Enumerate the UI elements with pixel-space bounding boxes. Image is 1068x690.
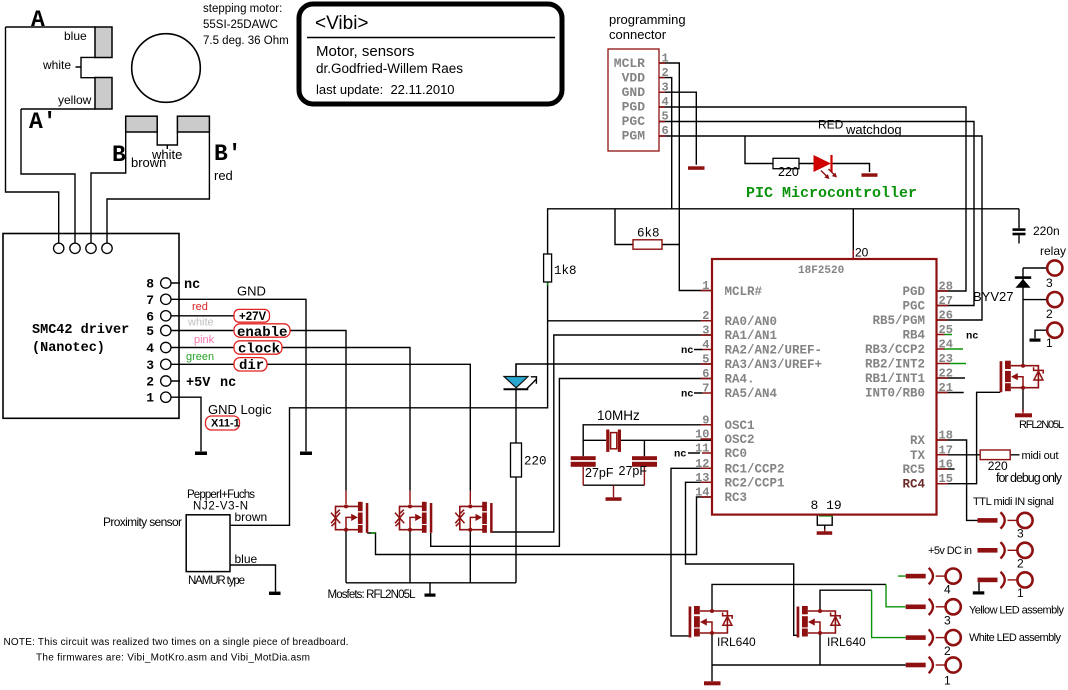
svg-text:5: 5 — [146, 324, 154, 339]
svg-text:RA5/AN4: RA5/AN4 — [725, 387, 778, 401]
svg-text:RC5: RC5 — [902, 463, 925, 477]
svg-text:5: 5 — [662, 110, 669, 124]
svg-text:220: 220 — [524, 455, 547, 469]
svg-text:3: 3 — [662, 81, 669, 95]
svg-text:GND: GND — [237, 284, 266, 299]
svg-text:pink: pink — [194, 334, 215, 346]
svg-text:INT0/RB0: INT0/RB0 — [865, 387, 925, 401]
svg-text:RB3/CCP2: RB3/CCP2 — [865, 343, 925, 357]
svg-text:PepperI+Fuchs: PepperI+Fuchs — [187, 489, 255, 501]
svg-text:midi out: midi out — [1022, 450, 1059, 462]
svg-text:OSC1: OSC1 — [725, 419, 755, 433]
svg-text:17: 17 — [939, 443, 953, 457]
svg-text:6: 6 — [702, 367, 709, 381]
svg-text:55SI-25DAWC: 55SI-25DAWC — [203, 19, 278, 31]
svg-text:blue: blue — [235, 552, 258, 566]
svg-text:GND: GND — [622, 85, 646, 100]
svg-text:3: 3 — [1046, 276, 1053, 290]
svg-text:Motor, sensors: Motor, sensors — [316, 43, 414, 60]
svg-text:X11-1: X11-1 — [211, 417, 240, 429]
svg-text:PGC: PGC — [622, 114, 646, 129]
svg-text:nc: nc — [681, 345, 694, 357]
svg-text:4: 4 — [702, 338, 709, 352]
svg-text:1: 1 — [944, 674, 951, 688]
svg-text:clock: clock — [238, 342, 280, 358]
svg-text:14: 14 — [695, 486, 709, 500]
svg-text:IRL640: IRL640 — [717, 635, 756, 649]
svg-text:dir: dir — [239, 358, 264, 374]
svg-text:2: 2 — [146, 375, 154, 390]
svg-text:PGD: PGD — [902, 285, 925, 299]
svg-text:RB5/PGM: RB5/PGM — [872, 314, 925, 328]
svg-text:SMC42 driver: SMC42 driver — [32, 323, 129, 338]
svg-text:7: 7 — [146, 293, 154, 308]
svg-text:(Nanotec): (Nanotec) — [32, 341, 105, 356]
svg-text:PGC: PGC — [902, 300, 925, 314]
svg-text:3: 3 — [944, 613, 951, 627]
svg-text:White LED assembly: White LED assembly — [969, 632, 1062, 644]
svg-text:MCLR#: MCLR# — [725, 285, 763, 299]
svg-text:3: 3 — [146, 358, 154, 373]
svg-text:B': B' — [214, 141, 242, 167]
svg-text:A: A — [31, 7, 45, 33]
svg-text:watchdog: watchdog — [845, 122, 902, 137]
svg-text:RC4: RC4 — [902, 478, 925, 492]
svg-text:10: 10 — [695, 428, 709, 442]
svg-text:Mosfets: RFL2N05L: Mosfets: RFL2N05L — [328, 589, 417, 601]
svg-text:dr.Godfried-Willem Raes: dr.Godfried-Willem Raes — [316, 61, 463, 76]
svg-text:yellow: yellow — [58, 93, 92, 107]
svg-text:RA4.: RA4. — [725, 373, 755, 387]
svg-text:RC1/CCP2: RC1/CCP2 — [725, 463, 785, 477]
svg-text:PGM: PGM — [622, 129, 646, 144]
svg-text:4: 4 — [146, 341, 154, 356]
svg-text:5: 5 — [702, 353, 709, 367]
svg-text:nc: nc — [184, 278, 200, 293]
svg-text:4: 4 — [944, 583, 951, 597]
svg-text:1: 1 — [146, 391, 154, 406]
svg-text:9: 9 — [702, 413, 709, 427]
svg-text:RC2/CCP1: RC2/CCP1 — [725, 477, 785, 491]
svg-text:PGD: PGD — [622, 100, 646, 115]
svg-text:18F2520: 18F2520 — [798, 265, 844, 277]
svg-text:RC3: RC3 — [725, 491, 748, 505]
svg-text:3: 3 — [1017, 527, 1024, 541]
svg-text:RA1/AN1: RA1/AN1 — [725, 329, 778, 343]
svg-text:RED: RED — [818, 118, 844, 132]
svg-text:16: 16 — [939, 458, 953, 472]
svg-text:3: 3 — [702, 324, 709, 338]
svg-text:20: 20 — [855, 246, 869, 260]
svg-text:BYV27: BYV27 — [973, 289, 1013, 304]
svg-text:TX: TX — [910, 449, 926, 463]
svg-text:NOTE: This circuit was realize: NOTE: This circuit was realized two time… — [4, 637, 349, 648]
svg-text:24: 24 — [939, 338, 953, 352]
svg-text:for debug only: for debug only — [996, 471, 1063, 485]
svg-text:RB4: RB4 — [902, 329, 925, 343]
svg-text:23: 23 — [939, 352, 953, 366]
svg-text:programming: programming — [609, 12, 686, 27]
svg-text:blue: blue — [64, 29, 87, 43]
svg-text:relay: relay — [1040, 244, 1066, 258]
svg-text:enable: enable — [237, 325, 287, 341]
svg-text:nc: nc — [681, 388, 694, 400]
svg-text:1: 1 — [662, 52, 669, 66]
svg-text:10MHz: 10MHz — [597, 408, 640, 423]
svg-text:RB2/INT2: RB2/INT2 — [865, 358, 925, 372]
svg-text:nc: nc — [966, 331, 979, 343]
svg-text:2: 2 — [1046, 307, 1053, 321]
svg-text:red: red — [214, 168, 233, 183]
svg-text:27: 27 — [939, 294, 953, 308]
svg-text:+27V: +27V — [239, 311, 267, 323]
svg-text:The firmwares are: Vibi_MotKro: The firmwares are: Vibi_MotKro.asm and V… — [36, 653, 310, 664]
svg-text:11: 11 — [695, 442, 709, 456]
svg-text:brown: brown — [131, 155, 166, 170]
svg-text:IRL640: IRL640 — [827, 635, 866, 649]
svg-text:RC0: RC0 — [725, 447, 748, 461]
svg-text:+5v DC in: +5v DC in — [928, 545, 972, 557]
svg-text:B: B — [112, 142, 126, 168]
svg-text:220n: 220n — [1033, 224, 1060, 238]
svg-text:RA2/AN2/UREF-: RA2/AN2/UREF- — [725, 344, 823, 358]
svg-text:nc: nc — [220, 376, 236, 391]
svg-text:2: 2 — [1017, 557, 1024, 571]
svg-text:1: 1 — [1046, 336, 1053, 350]
svg-text:6k8: 6k8 — [637, 227, 660, 241]
svg-text:+5V: +5V — [186, 376, 211, 391]
svg-text:Proximity sensor: Proximity sensor — [103, 515, 182, 529]
svg-text:13: 13 — [695, 471, 709, 485]
svg-text:1: 1 — [1017, 586, 1024, 600]
svg-text:OSC2: OSC2 — [725, 433, 755, 447]
svg-text:15: 15 — [939, 472, 953, 486]
svg-text:1: 1 — [702, 279, 709, 293]
svg-text:6: 6 — [146, 309, 154, 324]
svg-text:TTL midi IN signal: TTL midi IN signal — [973, 496, 1054, 508]
svg-text:red: red — [192, 301, 208, 313]
svg-text:4: 4 — [662, 95, 669, 109]
svg-text:2: 2 — [702, 309, 709, 323]
svg-text:RX: RX — [910, 434, 926, 448]
svg-text:25: 25 — [939, 323, 953, 337]
svg-text:green: green — [186, 351, 214, 363]
svg-text:2: 2 — [662, 66, 669, 80]
svg-text:A': A' — [29, 109, 57, 135]
svg-text:27pF: 27pF — [585, 466, 614, 480]
svg-text:RFL2N05L: RFL2N05L — [1019, 419, 1064, 431]
svg-text:VDD: VDD — [622, 71, 646, 86]
svg-text:26: 26 — [939, 309, 953, 323]
svg-text:6: 6 — [662, 124, 669, 138]
svg-text:white: white — [42, 58, 71, 72]
svg-text:8: 8 — [146, 277, 154, 292]
svg-text:<Vibi>: <Vibi> — [315, 13, 369, 34]
svg-text:RB1/INT1: RB1/INT1 — [865, 372, 925, 386]
svg-text:7: 7 — [702, 382, 709, 396]
svg-text:brown: brown — [235, 510, 268, 524]
svg-text:RA3/AN3/UREF+: RA3/AN3/UREF+ — [725, 358, 823, 372]
svg-text:2: 2 — [944, 644, 951, 658]
svg-text:12: 12 — [695, 457, 709, 471]
svg-text:RA0/AN0: RA0/AN0 — [725, 315, 778, 329]
svg-text:28: 28 — [939, 280, 953, 294]
svg-text:PIC Microcontroller: PIC Microcontroller — [746, 185, 917, 202]
svg-text:GND Logic: GND Logic — [208, 402, 272, 417]
svg-text:220: 220 — [778, 165, 799, 179]
svg-text:connector: connector — [609, 27, 667, 42]
svg-text:nc: nc — [674, 448, 687, 460]
svg-text:MCLR: MCLR — [614, 56, 645, 71]
svg-text:Yellow LED assembly: Yellow LED assembly — [969, 605, 1065, 617]
svg-text:27pF: 27pF — [619, 464, 648, 478]
svg-text:last update: 22.11.2010: last update: 22.11.2010 — [316, 82, 455, 97]
svg-text:stepping motor:: stepping motor: — [203, 3, 282, 15]
svg-text:8 19: 8 19 — [811, 498, 842, 513]
svg-text:21: 21 — [939, 381, 953, 395]
svg-text:NAMUR type: NAMUR type — [188, 575, 245, 587]
svg-text:22: 22 — [939, 367, 953, 381]
svg-text:1k8: 1k8 — [554, 264, 577, 278]
svg-text:18: 18 — [939, 429, 953, 443]
svg-text:white: white — [187, 317, 214, 329]
svg-text:7.5 deg. 36 Ohm: 7.5 deg. 36 Ohm — [203, 35, 289, 47]
